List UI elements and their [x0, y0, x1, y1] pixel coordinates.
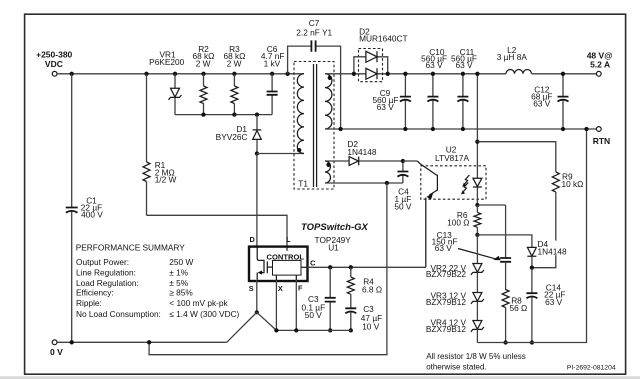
diode D2 1N4148 (bias): [325, 139, 403, 165]
node: R2 top: [201, 72, 205, 76]
resistor R1: [143, 74, 177, 216]
svg-text:C7: C7: [309, 18, 320, 28]
svg-text:C: C: [310, 258, 316, 267]
node: drain junction: [255, 151, 259, 155]
node: feedback bus to RTN: [584, 127, 588, 131]
resistor R8: [502, 290, 527, 345]
node: C3 tap on C line: [328, 265, 332, 269]
wire: 0V rail: [57, 341, 227, 343]
wire: feedback bottom bus: [477, 129, 586, 343]
node: F pin junction: [294, 328, 298, 332]
X F stubs: [276, 275, 296, 280]
svg-text:0 V: 0 V: [50, 347, 63, 357]
node: C7 tap: [285, 72, 289, 76]
inductor L2: [497, 45, 532, 74]
svg-text:MUR1640CT: MUR1640CT: [359, 34, 407, 44]
node: primary polarity dot: [297, 148, 301, 152]
zener VR3 BZX79B12: [426, 272, 484, 307]
wire: drain junction to primary bottom: [257, 153, 304, 155]
svg-text:Efficiency:: Efficiency:: [76, 288, 114, 298]
svg-text:63 V: 63 V: [377, 102, 395, 112]
node: R2 bottom: [201, 112, 205, 116]
wire: secondary top rail (48V): [325, 73, 596, 75]
resistor R2: [192, 44, 214, 115]
rectifier D2 MUR1640CT: [352, 26, 408, 81]
capacitor C1: [66, 74, 104, 343]
svg-text:63 V: 63 V: [545, 297, 563, 307]
capacitor C12: [531, 72, 568, 131]
capacitor C6: [261, 44, 285, 115]
svg-text:2 W: 2 W: [227, 58, 242, 68]
opto phototransistor: [403, 160, 417, 162]
resistor R3: [223, 44, 245, 115]
svg-text:2.2 nF Y1: 2.2 nF Y1: [296, 28, 332, 38]
svg-text:1N4148: 1N4148: [347, 147, 376, 157]
svg-text:100 Ω: 100 Ω: [447, 217, 469, 227]
svg-text:1/2 W: 1/2 W: [155, 175, 177, 185]
svg-text:P6KE200: P6KE200: [149, 57, 184, 67]
capacitor C11: [451, 47, 477, 131]
control block: [273, 260, 302, 275]
zener VR2 BZX79B22: [426, 235, 484, 279]
svg-text:Ripple:: Ripple:: [76, 298, 102, 308]
svg-text:TOPSwitch-GX: TOPSwitch-GX: [301, 222, 369, 233]
node: C1 bottom junction: [70, 340, 74, 344]
svg-text:50 V: 50 V: [305, 310, 323, 320]
node: VR1 top: [173, 72, 177, 76]
wire: X pin drop: [275, 280, 277, 330]
svg-text:± 1%: ± 1%: [169, 268, 188, 278]
output terminal RTN: [593, 127, 610, 146]
node: secondary polarity dot: [328, 76, 332, 80]
svg-text:63 V: 63 V: [533, 98, 551, 108]
svg-text:< 100 mV pk-pk: < 100 mV pk-pk: [169, 298, 228, 308]
svg-text:S: S: [249, 284, 254, 293]
svg-text:63 V: 63 V: [426, 60, 444, 70]
wire: branch to C13: [477, 204, 505, 206]
svg-text:56 Ω: 56 Ω: [510, 303, 528, 313]
svg-text:BZX79B12: BZX79B12: [426, 297, 467, 307]
svg-text:L: L: [286, 235, 291, 244]
performance summary: [76, 243, 240, 319]
zener VR1 P6KE200: [149, 49, 184, 114]
node: R3 bottom: [232, 112, 236, 116]
transformer bias winding: [325, 161, 331, 183]
svg-text:≤ 1.4 W (300 VDC): ≤ 1.4 W (300 VDC): [169, 309, 239, 319]
svg-text:U1: U1: [328, 243, 339, 253]
svg-text:VDC: VDC: [45, 59, 63, 69]
svg-text:≥ 85%: ≥ 85%: [169, 288, 193, 298]
zener VR4 BZX79B12: [426, 301, 484, 342]
output terminal 48V: [587, 51, 613, 77]
node: R9 branch: [475, 140, 479, 144]
node: bias return tap: [385, 181, 389, 185]
svg-text:otherwise stated.: otherwise stated.: [426, 362, 486, 371]
U1 MOSFET: [257, 247, 287, 280]
capacitor C13: [432, 205, 511, 290]
light arrows: [463, 175, 469, 192]
svg-text:PI-2692-081204: PI-2692-081204: [567, 365, 616, 372]
transformer core: [314, 64, 317, 187]
svg-text:BZX79B22: BZX79B22: [426, 269, 467, 279]
svg-text:10 kΩ: 10 kΩ: [562, 179, 584, 189]
node: D1 branch: [255, 112, 259, 116]
transformer T1: [294, 62, 334, 190]
terminal 0V: [50, 340, 63, 357]
wire: bias return: [325, 182, 403, 184]
node: X pin junction: [274, 328, 278, 332]
node: R1 tap: [144, 72, 148, 76]
wire: drain vertical to D pin: [256, 154, 258, 247]
wire: node A to D4: [477, 235, 532, 248]
node: R3 top: [232, 72, 236, 76]
svg-text:2 W: 2 W: [196, 58, 211, 68]
resistor R9: [532, 171, 583, 267]
wire: C pin line: [308, 266, 427, 268]
capacitor C3 47uF: [345, 294, 382, 332]
bottom gray strip: [0, 376, 640, 379]
svg-text:Load Regulation:: Load Regulation:: [76, 278, 139, 288]
svg-text:PERFORMANCE SUMMARY: PERFORMANCE SUMMARY: [76, 243, 186, 253]
input terminal +250-380 VDC: [36, 50, 72, 77]
wire: clamp bus: [175, 114, 272, 116]
svg-text:250 W: 250 W: [169, 257, 193, 267]
wire: R1 to L pin: [147, 215, 288, 246]
svg-text:63 V: 63 V: [435, 243, 453, 253]
capacitor C3 0.1uF: [301, 267, 335, 332]
svg-text:D: D: [250, 235, 255, 244]
svg-text:BZX79B12: BZX79B12: [426, 324, 467, 334]
resistor R6: [447, 205, 481, 235]
svg-text:LTV817A: LTV817A: [435, 153, 469, 163]
capacitor C7 (Y1): [288, 18, 341, 129]
wire: bias return to source rail: [149, 183, 387, 355]
op U1 TOPSwitch TOP249Y: [249, 235, 316, 293]
node: R4 tap on C line: [349, 265, 353, 269]
diode D1 BYV26C: [216, 115, 262, 154]
svg-text:6.8 Ω: 6.8 Ω: [362, 285, 382, 295]
svg-text:5.2 A: 5.2 A: [590, 60, 610, 70]
svg-text:Output Power:: Output Power:: [76, 257, 129, 267]
svg-text:± 5%: ± 5%: [169, 278, 188, 288]
svg-text:3 µH 8A: 3 µH 8A: [497, 52, 528, 62]
resistor R4: [347, 267, 382, 294]
C pin lead: [301, 266, 308, 268]
wire: branch to R9: [477, 142, 555, 172]
svg-text:63 V: 63 V: [455, 60, 473, 70]
svg-text:X: X: [278, 284, 283, 293]
wire: RTN rail: [325, 128, 596, 130]
svg-text:400 V: 400 V: [81, 210, 103, 220]
svg-text:No Load Consumption:: No Load Consumption:: [76, 309, 161, 319]
wire: source diagonals: [227, 312, 277, 342]
wire: F pin drop: [295, 280, 297, 330]
svg-text:1 kV: 1 kV: [264, 58, 281, 68]
node: C6 top: [270, 72, 274, 76]
node: bias return junction: [147, 340, 151, 344]
capacitor C10: [421, 47, 447, 131]
opto LED: [476, 166, 478, 205]
node: C7 to RTN junction: [338, 127, 342, 131]
wire: S pin to source node: [256, 280, 258, 312]
wire: top DC rail: [57, 73, 304, 75]
capacitor C14: [526, 268, 565, 345]
wire: 48V feedback drop: [476, 74, 478, 166]
transformer secondary winding: [325, 74, 332, 129]
optocoupler U2 LTV817A: [403, 145, 486, 268]
svg-text:RTN: RTN: [593, 136, 610, 146]
transformer primary winding: [297, 74, 304, 154]
svg-text:Line Regulation:: Line Regulation:: [76, 268, 136, 278]
capacitor C9: [373, 72, 411, 131]
svg-text:50 V: 50 V: [394, 202, 412, 212]
node: bias polarity dot: [326, 163, 330, 167]
svg-text:F: F: [298, 283, 303, 292]
svg-text:T1: T1: [298, 179, 308, 189]
svg-text:BYV26C: BYV26C: [216, 132, 248, 142]
svg-text:10 V: 10 V: [362, 322, 380, 332]
node: LED cathode / C13 branch: [475, 203, 479, 207]
capacitor C4: [394, 159, 412, 212]
node: input junction: [70, 72, 74, 76]
node: source: [255, 310, 259, 314]
svg-text:1N4148: 1N4148: [538, 247, 567, 257]
wire: local source bus: [276, 329, 350, 331]
node A: R6 bottom: [475, 233, 479, 237]
svg-text:All resistor 1/8 W 5% unless: All resistor 1/8 W 5% unless: [426, 352, 526, 361]
diode D4 1N4148: [527, 239, 573, 270]
